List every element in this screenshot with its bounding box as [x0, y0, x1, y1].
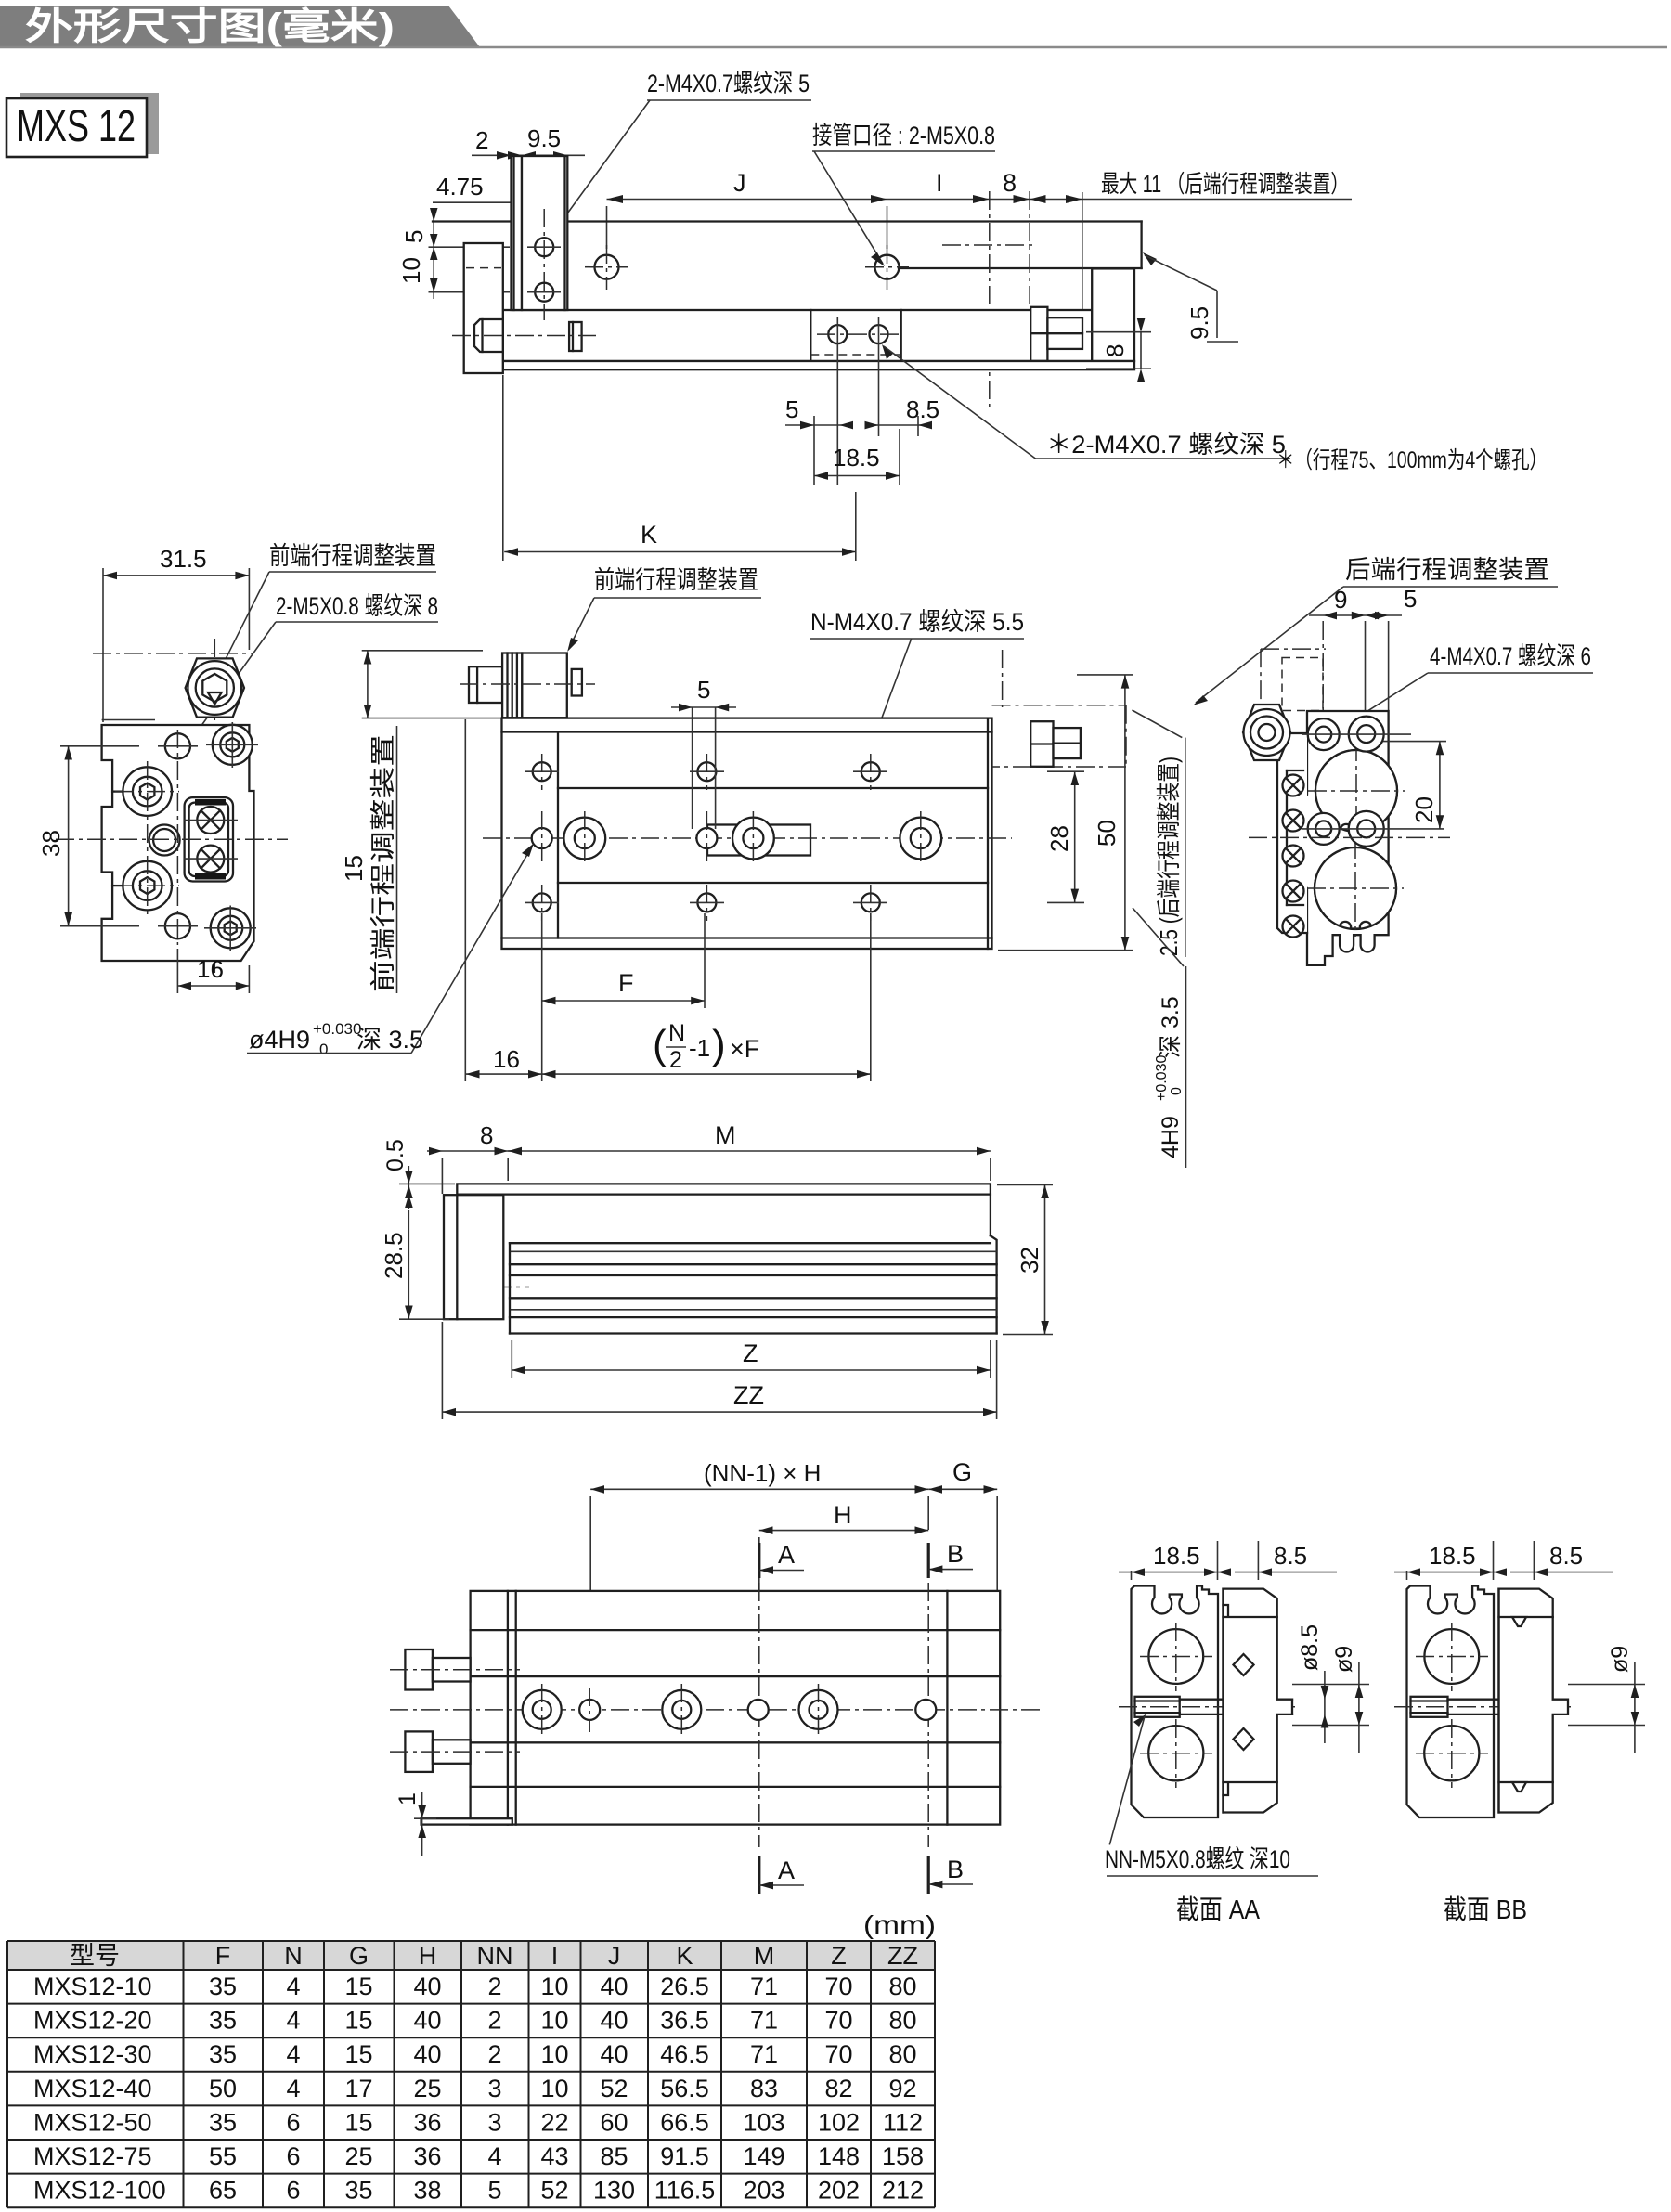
dim 32	[997, 1184, 1053, 1334]
svg-text:103: 103	[743, 2108, 784, 2136]
dims 5 / 8.5 below body	[785, 395, 939, 485]
dim 1 left	[395, 1792, 436, 1856]
svg-text:4: 4	[286, 1973, 300, 2000]
svg-text:NN: NN	[477, 1942, 513, 1970]
svg-text:3: 3	[487, 2075, 501, 2102]
svg-text:52: 52	[600, 2075, 628, 2102]
svg-text:0: 0	[319, 1041, 328, 1058]
pocket rectangle	[707, 825, 810, 856]
svg-text:外形尺寸图(毫米): 外形尺寸图(毫米)	[25, 6, 395, 47]
leader *2-M4X0.7	[882, 344, 1290, 459]
BB left block outline	[1407, 1586, 1495, 1818]
svg-text:(mm): (mm)	[863, 1910, 936, 1939]
svg-text:16: 16	[197, 955, 224, 983]
top right counterbore with hex socket	[206, 722, 258, 768]
svg-text:J: J	[733, 169, 746, 197]
svg-text:5: 5	[1404, 585, 1417, 613]
dim 16 and (N/2-1)xF	[466, 1020, 871, 1079]
svg-text:28: 28	[1045, 825, 1073, 852]
lower M4 hole	[535, 283, 553, 302]
svg-text:MXS 12: MXS 12	[17, 102, 136, 151]
svg-text:80: 80	[888, 2040, 916, 2068]
svg-text:15: 15	[344, 1973, 372, 2000]
svg-text:148: 148	[818, 2142, 860, 2170]
svg-text:70: 70	[824, 2007, 852, 2035]
svg-text:16: 16	[493, 1045, 520, 1073]
label front stroke adjuster (view2)	[215, 542, 436, 679]
counterbore upper	[115, 767, 179, 816]
svg-text:Z: Z	[831, 1942, 847, 1970]
svg-text:0: 0	[1169, 1087, 1185, 1095]
svg-text:36.5: 36.5	[660, 2007, 709, 2035]
svg-text:ZZ: ZZ	[887, 1942, 918, 1970]
section mark B top	[928, 1540, 973, 1578]
svg-text:65: 65	[209, 2177, 237, 2205]
svg-text:8: 8	[1003, 169, 1017, 197]
svg-text:前端行程调整装置: 前端行程调整装置	[369, 734, 397, 992]
svg-text:85: 85	[600, 2142, 628, 2170]
AA right block	[1224, 1589, 1293, 1813]
dim 15 left	[340, 651, 502, 882]
svg-text:型号: 型号	[70, 1942, 120, 1970]
svg-text:2: 2	[475, 126, 488, 154]
svg-text:6: 6	[286, 2108, 300, 2136]
groove stubs left	[112, 790, 123, 792]
dim H	[759, 1501, 928, 1593]
svg-text:MXS12-10: MXS12-10	[33, 1973, 152, 2000]
svg-text:17: 17	[344, 2075, 372, 2102]
svg-text:深 3.5: 深 3.5	[356, 1026, 423, 1054]
counterbore lower	[115, 861, 179, 911]
svg-text:35: 35	[209, 2040, 237, 2068]
dim 8.5 AA	[1218, 1541, 1338, 1580]
svg-text:18.5: 18.5	[1429, 1542, 1476, 1570]
svg-text:(: (	[653, 1022, 667, 1067]
dim 4.75	[433, 173, 554, 206]
MXS 12 model label box	[6, 93, 159, 157]
svg-text:+0.030: +0.030	[1154, 1055, 1170, 1101]
table slab top edge	[433, 220, 1142, 222]
pin details	[1512, 1617, 1526, 1626]
bracket hole centerline vertical	[543, 209, 545, 320]
svg-text:82: 82	[824, 2075, 852, 2102]
svg-text:80: 80	[888, 2007, 916, 2035]
svg-text:接管口径 : 2-M5X0.8: 接管口径 : 2-M5X0.8	[812, 122, 995, 149]
svg-text:40: 40	[413, 2040, 441, 2068]
svg-text:4H9: 4H9	[1158, 1116, 1184, 1158]
svg-text:6: 6	[286, 2177, 300, 2205]
svg-text:25: 25	[344, 2142, 372, 2170]
svg-text:4: 4	[286, 2007, 300, 2035]
AA left block outline	[1132, 1586, 1219, 1818]
svg-text:4: 4	[487, 2142, 501, 2170]
9.5 step leader	[1143, 252, 1238, 342]
svg-text:71: 71	[750, 2007, 778, 2035]
AA bore circles	[1148, 1629, 1203, 1684]
svg-text:50: 50	[209, 2075, 237, 2102]
svg-text:116.5: 116.5	[654, 2177, 716, 2205]
label 4-M4X0.7 depth6	[1334, 642, 1593, 733]
svg-text:8: 8	[480, 1121, 493, 1149]
svg-text:G: G	[952, 1458, 972, 1486]
left bolts	[390, 1649, 520, 1772]
svg-text:22: 22	[540, 2108, 568, 2136]
left bolt head	[474, 319, 503, 352]
svg-text:6: 6	[286, 2142, 300, 2170]
dim ZZ	[442, 1322, 996, 1419]
dim 18.5	[814, 444, 900, 480]
dim 38	[37, 746, 139, 926]
svg-text:ø8.5: ø8.5	[1297, 1624, 1323, 1671]
dim 8.5 BB	[1494, 1541, 1613, 1580]
svg-text:15: 15	[344, 2040, 372, 2068]
svg-text:40: 40	[600, 1973, 628, 2000]
dim 16 view2	[177, 949, 249, 993]
big bore lower	[1307, 840, 1404, 937]
svg-text:Z: Z	[743, 1339, 758, 1367]
dims o8.5 o9	[1292, 1624, 1369, 1753]
svg-text:5: 5	[697, 676, 710, 704]
dim 5 top	[671, 676, 736, 829]
dim 20	[1383, 742, 1446, 829]
svg-text:46.5: 46.5	[660, 2040, 709, 2068]
rotated 2.5 rear adjuster note	[1133, 710, 1185, 957]
dim 18.5 BB	[1394, 1541, 1506, 1580]
M4 hole pairs	[1302, 717, 1444, 847]
svg-text:35: 35	[209, 2007, 237, 2035]
svg-text:×F: ×F	[730, 1035, 759, 1063]
svg-text:9: 9	[1334, 586, 1347, 614]
svg-text:40: 40	[600, 2040, 628, 2068]
section line B vertical	[927, 1583, 929, 1847]
svg-text:ZZ: ZZ	[733, 1381, 764, 1409]
main horizontal centerline view2	[56, 838, 288, 840]
svg-text:70: 70	[824, 2040, 852, 2068]
dim o9 BB	[1568, 1646, 1645, 1753]
svg-text:40: 40	[413, 2007, 441, 2035]
svg-text:9.5: 9.5	[1185, 306, 1213, 340]
svg-text:50: 50	[1093, 820, 1120, 847]
svg-text:36: 36	[413, 2142, 441, 2170]
section mark A top	[759, 1541, 804, 1578]
svg-text:25: 25	[413, 2075, 441, 2102]
adjuster hex nut	[186, 658, 244, 717]
svg-text:2: 2	[669, 1047, 682, 1073]
rod centerline	[452, 335, 596, 337]
svg-text:4-M4X0.7 螺纹深 6: 4-M4X0.7 螺纹深 6	[1430, 642, 1591, 670]
svg-text:10: 10	[540, 2040, 568, 2068]
dim 28	[1045, 771, 1084, 902]
horizontal centerline top	[93, 653, 253, 654]
svg-text:38: 38	[413, 2177, 441, 2205]
svg-text:15: 15	[340, 855, 368, 882]
svg-text:＊（行程75、100mm为4个螺孔）: ＊（行程75、100mm为4个螺孔）	[1276, 447, 1548, 473]
svg-text:31.5: 31.5	[160, 545, 207, 573]
end plate right	[1092, 268, 1134, 361]
svg-text:I: I	[936, 169, 943, 197]
svg-text:): )	[712, 1022, 726, 1067]
svg-text:K: K	[676, 1942, 693, 1970]
label 2-M4X0.7 depth5 top	[546, 70, 811, 243]
AA thread section	[1119, 1697, 1300, 1717]
label rear adjuster right	[1193, 556, 1558, 705]
svg-text:28.5: 28.5	[380, 1232, 408, 1279]
dims 9 and 5	[1309, 585, 1417, 743]
rotated label front adjuster left	[369, 726, 397, 993]
svg-text:＊2-M4X0.7 螺纹深 5: ＊2-M4X0.7 螺纹深 5	[1046, 431, 1286, 459]
svg-text:18.5: 18.5	[833, 444, 880, 472]
svg-text:8.5: 8.5	[906, 395, 939, 423]
svg-text:N: N	[668, 1020, 685, 1046]
left cap block	[464, 243, 503, 373]
top step thin line	[102, 719, 155, 721]
svg-text:18.5: 18.5	[1153, 1542, 1200, 1570]
svg-text:38: 38	[37, 830, 65, 857]
svg-text:158: 158	[882, 2142, 924, 2170]
M5 holes vertical centerline	[176, 730, 178, 945]
svg-text:36: 36	[413, 2108, 441, 2136]
label N-M4X0.7	[810, 608, 1024, 757]
label 2-M5X0.8 depth8	[189, 592, 438, 743]
BB bore circles	[1424, 1629, 1479, 1684]
left port hole	[595, 255, 619, 279]
svg-text:M: M	[754, 1942, 775, 1970]
label o4H9 depth3.5 left	[247, 844, 534, 1059]
right adjuster bolt	[1030, 307, 1047, 333]
vertical centerline	[214, 639, 215, 973]
leader NN-M5X0.8	[1105, 1714, 1318, 1877]
left attachment strip	[1277, 733, 1307, 933]
svg-text:ø9: ø9	[1331, 1646, 1357, 1673]
dim Z	[512, 1339, 991, 1378]
svg-text:MXS12-75: MXS12-75	[33, 2142, 152, 2170]
dim 8 top	[427, 1121, 520, 1194]
svg-text:+0.030: +0.030	[313, 1020, 361, 1038]
svg-text:2: 2	[487, 2040, 501, 2068]
label front adjuster center	[567, 566, 761, 652]
dim (NN-1)xH and G	[590, 1458, 997, 1593]
svg-text:4.75: 4.75	[436, 173, 484, 201]
right extension vertical	[1082, 192, 1083, 350]
svg-text:2.5 (后端行程调整装置): 2.5 (后端行程调整装置)	[1155, 757, 1183, 956]
svg-text:A: A	[778, 1856, 795, 1884]
svg-text:M: M	[715, 1121, 736, 1149]
svg-text:MXS12-30: MXS12-30	[33, 2040, 152, 2068]
dim 28.5	[380, 1185, 449, 1320]
svg-text:71: 71	[750, 2040, 778, 2068]
svg-text:20: 20	[1410, 796, 1438, 823]
mid small circle	[149, 825, 180, 856]
dim 5 and 10 left	[397, 208, 510, 299]
svg-text:MXS12-20: MXS12-20	[33, 2007, 152, 2035]
dim 0.5	[382, 1139, 455, 1209]
svg-text:4: 4	[286, 2075, 300, 2102]
body outline view6	[1301, 711, 1391, 965]
svg-text:N: N	[284, 1942, 303, 1970]
BB stud section	[1394, 1697, 1575, 1717]
svg-text:最大 11 （后端行程调整装置）: 最大 11 （后端行程调整装置）	[1101, 170, 1349, 198]
dim 2 and 9.5 top-left	[472, 124, 585, 160]
svg-text:212: 212	[882, 2177, 924, 2205]
svg-text:149: 149	[743, 2142, 784, 2170]
thin stopper plate	[512, 156, 523, 310]
top row M4 holes	[525, 754, 887, 790]
svg-text:66.5: 66.5	[660, 2108, 709, 2136]
svg-text:前端行程调整装置: 前端行程调整装置	[269, 542, 436, 570]
svg-text:15: 15	[344, 2108, 372, 2136]
svg-text:52: 52	[540, 2177, 568, 2205]
section mark B bottom	[928, 1856, 973, 1894]
main centerline view6	[1249, 836, 1450, 838]
bracket plate	[522, 156, 567, 310]
section mark A bottom	[759, 1856, 804, 1894]
front adjuster assembly top-left	[460, 653, 595, 718]
label port 2-M5X0.8	[812, 122, 995, 266]
BB right block	[1499, 1589, 1569, 1813]
svg-text:15: 15	[344, 2007, 372, 2035]
phantom verticals right	[989, 191, 991, 408]
svg-text:F: F	[215, 1942, 231, 1970]
D connector	[184, 797, 238, 881]
svg-text:J: J	[608, 1942, 621, 1970]
top mid M5 hole	[165, 733, 190, 758]
section line A vertical	[758, 1583, 760, 1847]
body outline view5	[471, 1591, 1001, 1825]
svg-text:5: 5	[785, 395, 798, 423]
svg-text:130: 130	[593, 2177, 635, 2205]
svg-text:32: 32	[1016, 1247, 1043, 1274]
svg-text:9.5: 9.5	[527, 124, 561, 152]
bottom row M4 holes	[525, 885, 887, 921]
dim 18.5 AA	[1119, 1541, 1230, 1580]
body tube	[503, 310, 1092, 361]
main centerline view3	[483, 837, 1012, 839]
svg-text:I: I	[551, 1942, 559, 1970]
svg-text:MXS12-50: MXS12-50	[33, 2108, 152, 2136]
rod centerline left	[461, 1287, 529, 1288]
body seam verticals	[810, 310, 811, 361]
svg-text:80: 80	[888, 1973, 916, 2000]
X circles column	[1283, 775, 1304, 938]
svg-text:后端行程调整装置: 后端行程调整装置	[1345, 556, 1549, 584]
svg-text:5: 5	[400, 230, 428, 243]
svg-text:4: 4	[286, 2040, 300, 2068]
svg-text:8.5: 8.5	[1549, 1542, 1583, 1570]
dim J/I/8/max11 line	[607, 169, 1353, 249]
svg-text:1: 1	[395, 1792, 421, 1805]
svg-text:10: 10	[397, 257, 425, 284]
svg-text:8.5: 8.5	[1274, 1542, 1307, 1570]
svg-text:5: 5	[487, 2177, 501, 2205]
dim 50	[998, 675, 1133, 951]
base plate strip	[503, 361, 1134, 369]
svg-text:40: 40	[413, 1973, 441, 2000]
svg-text:ø4H9: ø4H9	[249, 1026, 310, 1054]
counterbore centers vertical dashline	[147, 761, 149, 919]
svg-text:35: 35	[209, 2108, 237, 2136]
svg-text:ø9: ø9	[1607, 1646, 1633, 1673]
center row holes	[532, 811, 941, 865]
svg-text:10: 10	[540, 2075, 568, 2102]
svg-text:71: 71	[750, 1973, 778, 2000]
svg-text:NN-M5X0.8螺纹 深10: NN-M5X0.8螺纹 深10	[1105, 1845, 1290, 1873]
rotated 4H9 right	[1133, 908, 1186, 1168]
svg-text:B: B	[947, 1856, 964, 1883]
diamond pins	[1234, 1654, 1254, 1675]
svg-text:2-M5X0.8 螺纹深 8: 2-M5X0.8 螺纹深 8	[276, 592, 438, 620]
body outline view3	[502, 718, 992, 949]
title banner bar	[0, 6, 1667, 47]
svg-text:8: 8	[1101, 344, 1129, 357]
svg-text:3: 3	[487, 2108, 501, 2136]
dim M	[508, 1121, 991, 1181]
svg-text:0.5: 0.5	[382, 1139, 408, 1171]
svg-text:G: G	[349, 1942, 369, 1970]
svg-text:10: 10	[540, 2007, 568, 2035]
svg-text:35: 35	[209, 1973, 237, 2000]
svg-text:56.5: 56.5	[660, 2075, 709, 2102]
centerline upper right	[942, 244, 1033, 246]
svg-text:MXS12-100: MXS12-100	[33, 2177, 166, 2205]
svg-text:前端行程调整装置: 前端行程调整装置	[594, 566, 758, 594]
rod tip piece	[569, 322, 582, 351]
slab right step	[1140, 222, 1142, 269]
left bracket	[444, 1195, 503, 1319]
svg-text:2: 2	[487, 1973, 501, 2000]
bottom mid M5 hole	[165, 913, 190, 938]
svg-text:H: H	[834, 1501, 852, 1529]
right step	[991, 1235, 997, 1333]
svg-text:55: 55	[209, 2142, 237, 2170]
svg-text:202: 202	[818, 2177, 860, 2205]
svg-text:A: A	[778, 1541, 795, 1569]
svg-text:43: 43	[540, 2142, 568, 2170]
svg-text:112: 112	[883, 2108, 923, 2136]
left foot plate	[421, 1818, 512, 1824]
2-M4 bottom holes	[828, 325, 847, 343]
svg-text:N-M4X0.7 螺纹深 5.5: N-M4X0.7 螺纹深 5.5	[810, 608, 1024, 636]
svg-text:截面 AA: 截面 AA	[1176, 1895, 1261, 1925]
svg-text:K: K	[641, 521, 657, 549]
svg-text:83: 83	[750, 2075, 778, 2102]
svg-text:10: 10	[540, 1973, 568, 2000]
svg-text:2-M4X0.7螺纹深 5: 2-M4X0.7螺纹深 5	[647, 70, 810, 97]
svg-text:2: 2	[487, 2007, 501, 2035]
svg-text:40: 40	[600, 2007, 628, 2035]
svg-text:92: 92	[888, 2075, 916, 2102]
svg-text:70: 70	[824, 1973, 852, 2000]
big bore upper	[1308, 743, 1405, 839]
svg-text:截面 BB: 截面 BB	[1444, 1895, 1527, 1925]
right port hole	[875, 255, 900, 279]
body outline view2	[102, 725, 254, 961]
svg-text:60: 60	[600, 2108, 628, 2136]
svg-text:203: 203	[743, 2177, 784, 2205]
dim F	[465, 719, 871, 1081]
svg-text:H: H	[419, 1942, 437, 1970]
dim 31.5	[103, 545, 249, 722]
svg-text:(NN-1) × H: (NN-1) × H	[704, 1459, 821, 1487]
top plate	[457, 1184, 991, 1194]
svg-text:MXS12-40: MXS12-40	[33, 2075, 152, 2102]
adjuster nut top-left	[1243, 705, 1290, 760]
center holes row view5	[390, 1684, 1040, 1736]
rear adjuster phantom box	[992, 650, 1127, 767]
body bands	[510, 1242, 991, 1244]
dim 8 right side	[1086, 318, 1151, 382]
svg-text:B: B	[947, 1540, 964, 1568]
svg-text:102: 102	[818, 2108, 860, 2136]
